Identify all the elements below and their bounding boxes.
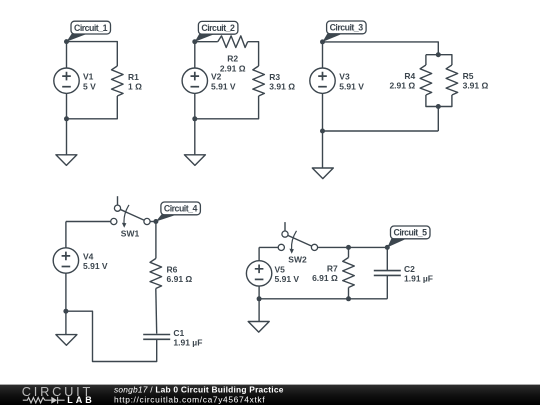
node circuit 3 bottom bbox=[320, 129, 325, 134]
node circuit 5 C2 top bbox=[385, 245, 390, 250]
svg-text:2.91 Ω: 2.91 Ω bbox=[220, 64, 246, 74]
svg-text:1.91 µF: 1.91 µF bbox=[173, 338, 202, 348]
voltage source V4 bbox=[53, 248, 108, 273]
wire circuit 4 ground stub bbox=[65, 311, 67, 334]
label Circuit_4 bbox=[156, 202, 201, 222]
label Circuit_2 bbox=[195, 21, 238, 41]
svg-text:R1: R1 bbox=[128, 72, 139, 82]
wire circuit 1 V1 bottom stub bbox=[66, 93, 68, 118]
svg-text:Circuit_1: Circuit_1 bbox=[74, 23, 108, 33]
voltage source V1 bbox=[54, 68, 96, 93]
label Circuit_1 bbox=[67, 21, 111, 41]
svg-text:Circuit_5: Circuit_5 bbox=[394, 228, 428, 238]
footer url text bbox=[114, 394, 265, 404]
svg-text:5.91 V: 5.91 V bbox=[339, 81, 364, 91]
resistor R1 bbox=[112, 66, 143, 96]
svg-text:5.91 V: 5.91 V bbox=[211, 81, 236, 91]
wire circuit 5 C2 bottom stub bbox=[386, 275, 388, 298]
wire circuit 3 parallel top bar bbox=[426, 55, 452, 65]
node circuit 2 top bbox=[192, 39, 197, 44]
voltage source V5 bbox=[246, 261, 299, 286]
ground circuit 1 bbox=[56, 155, 77, 166]
svg-text:5.91 V: 5.91 V bbox=[83, 261, 108, 271]
wire circuit 5 switch to C2 bbox=[318, 246, 388, 248]
resistor R2 bbox=[218, 36, 248, 74]
wire circuit 4 top left bbox=[66, 221, 111, 223]
svg-text:R7: R7 bbox=[327, 263, 338, 273]
wire circuit 4 V4 top stub bbox=[65, 222, 67, 248]
wire circuit 5 R7 top stub bbox=[348, 247, 350, 257]
node circuit 4 top bbox=[153, 219, 158, 224]
footer bar bbox=[0, 385, 540, 405]
svg-text:1.91 µF: 1.91 µF bbox=[404, 274, 433, 284]
svg-text:1 Ω: 1 Ω bbox=[128, 82, 142, 92]
wire circuit 4 switch to node bbox=[150, 221, 156, 223]
svg-text:V2: V2 bbox=[211, 72, 222, 82]
node circuit 2 bottom bbox=[192, 116, 197, 121]
label Circuit_5 bbox=[387, 226, 430, 247]
wire circuit 3 bottom bbox=[323, 130, 439, 132]
svg-text:5.91 V: 5.91 V bbox=[275, 274, 300, 284]
resistor R4 bbox=[389, 65, 431, 95]
node circuit 5 bottom left bbox=[257, 296, 262, 301]
wire circuit 5 V5 top stub bbox=[258, 247, 260, 260]
node circuit 5 R7 top bbox=[346, 245, 351, 250]
svg-text:SW1: SW1 bbox=[121, 229, 140, 239]
wire circuit 2 top left bbox=[195, 41, 218, 43]
wire circuit 2 ground stub bbox=[194, 119, 196, 155]
wire circuit 1 V1 top stub bbox=[66, 42, 68, 68]
svg-text:R2: R2 bbox=[227, 54, 238, 64]
wire circuit 2 bottom bbox=[195, 96, 259, 119]
voltage source V3 bbox=[310, 68, 364, 93]
switch SW2 bbox=[278, 222, 317, 265]
wire circuit 3 top bbox=[323, 42, 439, 55]
svg-text:Circuit_3: Circuit_3 bbox=[330, 23, 364, 33]
svg-text:http://circuitlab.com/ca7y4567: http://circuitlab.com/ca7y45674xtkf bbox=[114, 394, 265, 404]
svg-text:2.91 Ω: 2.91 Ω bbox=[389, 81, 415, 91]
node circuit 1 top bbox=[64, 39, 69, 44]
svg-text:V4: V4 bbox=[83, 251, 94, 261]
svg-text:6.91 Ω: 6.91 Ω bbox=[167, 274, 193, 284]
ground circuit 3 bbox=[312, 168, 333, 179]
wire circuit 1 top bbox=[67, 42, 118, 66]
svg-text:6.91 Ω: 6.91 Ω bbox=[312, 273, 338, 283]
svg-text:R5: R5 bbox=[463, 71, 474, 81]
wire circuit 3 V3 bottom stub bbox=[322, 93, 324, 131]
node circuit 5 R7 bottom bbox=[346, 296, 351, 301]
wire circuit 5 bottom bbox=[259, 298, 387, 300]
wire circuit 3 ground stub bbox=[322, 131, 324, 168]
voltage source V2 bbox=[182, 68, 236, 93]
wire circuit 3 right drop bbox=[437, 107, 439, 132]
svg-text:Circuit_2: Circuit_2 bbox=[201, 23, 235, 33]
resistor R3 bbox=[253, 66, 295, 96]
svg-text:C1: C1 bbox=[173, 328, 184, 338]
wire circuit 5 top left bbox=[259, 246, 278, 248]
wire circuit 4 R6 top stub bbox=[155, 222, 157, 259]
wire circuit 3 V3 top stub bbox=[322, 42, 324, 68]
node circuit 3 top bbox=[320, 39, 325, 44]
wire circuit 3 parallel bottom bar bbox=[426, 95, 452, 107]
wire circuit 4 C1 bottom path bbox=[66, 311, 157, 361]
wire circuit 5 C2 top stub bbox=[386, 247, 388, 270]
resistor R7 bbox=[312, 258, 354, 288]
label Circuit_3 bbox=[323, 21, 367, 42]
capacitor C2 bbox=[374, 264, 433, 284]
switch SW1 bbox=[111, 196, 150, 239]
svg-text:R6: R6 bbox=[167, 264, 178, 274]
svg-text:R4: R4 bbox=[404, 71, 415, 81]
node circuit 4 bottom bbox=[63, 309, 68, 314]
wire circuit 5 ground stub bbox=[258, 299, 260, 322]
svg-text:V1: V1 bbox=[83, 72, 94, 82]
capacitor C1 bbox=[143, 328, 202, 348]
wire circuit 2 V2 top stub bbox=[194, 42, 196, 68]
svg-text:3.91 Ω: 3.91 Ω bbox=[463, 81, 489, 91]
node circuit 3 parallel top bbox=[436, 52, 441, 57]
node circuit 1 bottom bbox=[64, 116, 69, 121]
wire circuit 2 top right bbox=[248, 42, 259, 66]
svg-text:R3: R3 bbox=[269, 72, 280, 82]
wire circuit 3 R4 top stub bbox=[425, 55, 427, 65]
footer title text bbox=[114, 384, 284, 394]
ground circuit 4 bbox=[56, 335, 77, 346]
logo CIRCUIT LAB bbox=[22, 384, 92, 405]
svg-text:songb17 / Lab 0 Circuit Buildi: songb17 / Lab 0 Circuit Building Practic… bbox=[114, 384, 284, 394]
svg-text:Circuit_4: Circuit_4 bbox=[164, 204, 198, 214]
svg-text:V5: V5 bbox=[275, 264, 286, 274]
wire circuit 1 ground stub bbox=[66, 119, 68, 155]
wire circuit 1 bottom bbox=[67, 96, 118, 119]
wire circuit 4 V4 bottom stub bbox=[65, 273, 67, 311]
wire circuit 4 R6 to C1 bbox=[155, 289, 158, 334]
svg-text:3.91 Ω: 3.91 Ω bbox=[269, 82, 295, 92]
svg-text:V3: V3 bbox=[339, 72, 350, 82]
resistor R5 bbox=[446, 65, 488, 95]
wire circuit 5 R7 bottom stub bbox=[348, 288, 350, 299]
svg-text:SW2: SW2 bbox=[288, 255, 307, 265]
svg-text:C2: C2 bbox=[404, 264, 415, 274]
svg-text:LAB: LAB bbox=[67, 395, 92, 405]
wire circuit 2 V2 bottom stub bbox=[194, 93, 196, 118]
resistor R6 bbox=[150, 259, 192, 289]
ground circuit 2 bbox=[184, 155, 205, 166]
svg-text:5 V: 5 V bbox=[83, 81, 96, 91]
wire circuit 5 V5 bottom stub bbox=[258, 286, 260, 299]
ground circuit 5 bbox=[248, 322, 269, 333]
node circuit 3 parallel bottom bbox=[436, 104, 441, 109]
